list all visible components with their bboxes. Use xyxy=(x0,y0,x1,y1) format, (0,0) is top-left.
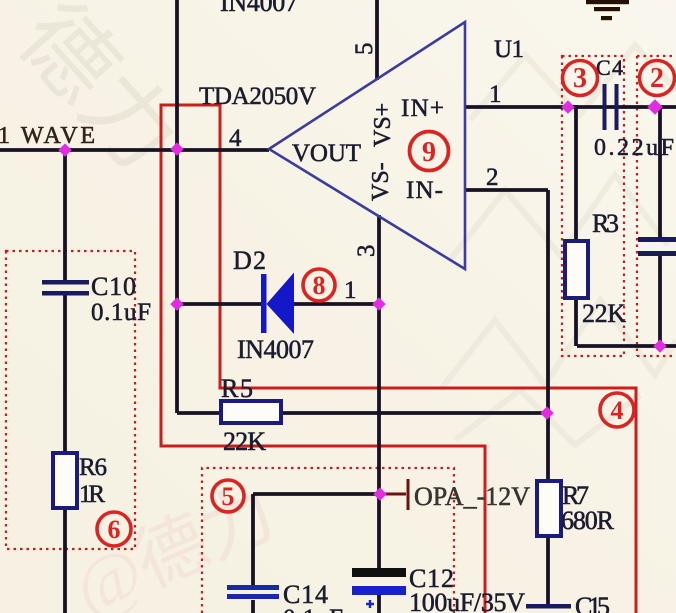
svg-text:3: 3 xyxy=(573,63,587,94)
wire pin2 net vertical through R7 xyxy=(546,190,550,606)
svg-text:IN4007: IN4007 xyxy=(220,0,298,17)
svg-text:IN-: IN- xyxy=(406,177,443,204)
circled number 2 xyxy=(640,61,675,96)
circled number 4 xyxy=(600,393,634,427)
svg-text:22K: 22K xyxy=(223,427,266,456)
wire R3 branch vertical xyxy=(568,107,576,346)
svg-text:8: 8 xyxy=(313,271,326,300)
svg-text:100uF/35V: 100uF/35V xyxy=(409,588,525,613)
svg-text:C15: C15 xyxy=(575,592,610,613)
watermark pink curves bottom-left xyxy=(62,472,287,613)
wire net WAVE horizontal xyxy=(0,148,269,152)
svg-text:1: 1 xyxy=(344,277,357,304)
wire OPA node horizontal and C14 branch xyxy=(253,494,379,613)
wire pin5 vertical top xyxy=(375,0,379,80)
svg-text:1R: 1R xyxy=(79,481,105,508)
watermark zigzag pattern right xyxy=(440,45,676,445)
svg-text:VS+: VS+ xyxy=(370,103,396,147)
resistor R7 xyxy=(537,481,561,536)
watermark gray characters top-left xyxy=(0,0,198,190)
svg-text:22K: 22K xyxy=(582,299,626,328)
circled number 5 xyxy=(212,480,244,512)
circled number 8 xyxy=(303,269,335,301)
wire left vertical from top diode to R5 xyxy=(175,0,179,413)
capacitor C10 xyxy=(42,280,89,296)
svg-text:4: 4 xyxy=(229,125,242,152)
red highlight trace polyline xyxy=(161,105,636,613)
wire pin2 horizontal xyxy=(465,188,548,192)
svg-text:0.1uF: 0.1uF xyxy=(283,605,343,613)
diode D2 xyxy=(261,273,294,335)
red dotted box region 5 xyxy=(202,468,454,613)
svg-text:5: 5 xyxy=(351,43,378,56)
svg-text:VS-: VS- xyxy=(368,162,394,201)
svg-text:1: 1 xyxy=(489,81,502,108)
port OPA_-12V marker xyxy=(381,479,408,510)
svg-text:R3: R3 xyxy=(592,209,619,238)
node junction WAVE/left wire xyxy=(170,142,183,155)
svg-text:IN4007: IN4007 xyxy=(237,335,314,364)
resistor R6 xyxy=(53,453,77,508)
node junction R5/R7 xyxy=(540,406,553,419)
svg-text:0.1uF: 0.1uF xyxy=(91,299,151,326)
svg-text:R5: R5 xyxy=(221,374,253,403)
circled number 6 xyxy=(97,512,131,546)
svg-text:6: 6 xyxy=(108,515,121,544)
svg-text:TDA2050V: TDA2050V xyxy=(199,83,316,110)
ground symbol xyxy=(586,0,629,20)
red dotted box region 2 xyxy=(637,56,676,356)
svg-text:R6: R6 xyxy=(79,454,107,481)
svg-text:C4: C4 xyxy=(596,55,623,80)
svg-text:OPA_-12V: OPA_-12V xyxy=(414,482,530,511)
svg-text:2: 2 xyxy=(650,63,664,94)
svg-text:U1: U1 xyxy=(494,36,524,63)
capacitor C12 electrolytic xyxy=(352,568,406,608)
wire pin3 vertical down to C12 xyxy=(377,215,381,613)
op-amp U1 triangle xyxy=(269,22,465,269)
svg-text:IN+: IN+ xyxy=(401,95,444,122)
capacitor C15 xyxy=(526,604,571,609)
node junction bottom right xyxy=(653,339,666,352)
svg-text:4: 4 xyxy=(611,396,624,425)
svg-text:680R: 680R xyxy=(561,506,615,535)
wire pin1 net horizontal xyxy=(465,105,676,109)
capacitor C11 right xyxy=(638,237,676,256)
node junction OPA xyxy=(373,487,386,500)
node junction pin1/R3 xyxy=(561,100,574,113)
svg-text:D2: D2 xyxy=(233,246,266,275)
svg-text:5: 5 xyxy=(222,482,235,511)
circled number 9 xyxy=(410,132,449,171)
svg-text:1 WAVE: 1 WAVE xyxy=(0,123,95,149)
node junction WAVE/C10 xyxy=(58,143,71,156)
wire C10/R6 branch vertical xyxy=(63,150,67,613)
svg-text:VOUT: VOUT xyxy=(292,140,361,167)
node junction pin1/C11 xyxy=(647,99,663,115)
resistor R3 xyxy=(565,241,588,298)
wire R5 horizontal to pin2 net xyxy=(177,411,548,415)
capacitor C4 xyxy=(603,84,619,130)
circled number 3 xyxy=(563,61,598,96)
resistor R5 xyxy=(221,401,281,423)
node junction D2 right xyxy=(372,297,385,310)
wire D2 horizontal xyxy=(177,302,379,306)
red dotted box region 6 xyxy=(6,251,135,549)
svg-text:C10: C10 xyxy=(91,272,136,301)
wire bottom horizontal right xyxy=(577,344,676,348)
node junction D2 left xyxy=(170,297,183,310)
wire right capacitor vertical xyxy=(658,107,662,346)
capacitor C14 xyxy=(227,585,279,599)
svg-text:3: 3 xyxy=(353,245,380,258)
svg-text:2: 2 xyxy=(486,164,499,191)
svg-text:9: 9 xyxy=(422,137,436,168)
red dotted box region 3 xyxy=(562,56,624,356)
